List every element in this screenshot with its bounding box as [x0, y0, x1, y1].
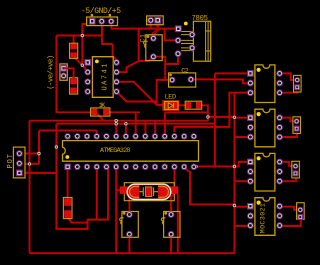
- wire X2 pad stub: [150, 20, 152, 28]
- connector J7 POT: [13, 147, 25, 178]
- svg-text:C2: C2: [181, 68, 189, 76]
- optocoupler U5 MOC3021: [247, 198, 283, 236]
- wire POT pin2: [19, 163, 39, 165]
- wire POT pin1: [19, 153, 39, 155]
- wire U2 pin1 feed: [215, 72, 247, 74]
- wire tap pad6: [115, 124, 117, 135]
- wire xtal right down: [177, 194, 179, 253]
- node K: [233, 204, 236, 207]
- optocoupler U2 MOC3021: [247, 65, 283, 103]
- wire 7805 pin2 feed: [165, 29, 178, 41]
- wire xtal left net: [115, 167, 117, 254]
- wire U5 pin3 feed: [234, 225, 247, 227]
- wire line D left leg: [56, 124, 108, 229]
- wire tap pad9: [144, 121, 146, 135]
- node M: [206, 115, 209, 118]
- label (-ve/+ve): [47, 55, 55, 90]
- svg-text:ATMEGA328: ATMEGA328: [100, 147, 131, 154]
- wire net -5V horizontal: [56, 35, 102, 37]
- wire tap pad8a: [135, 112, 137, 134]
- wire C2.2 to U2 pin2: [191, 79, 247, 83]
- wire seg a: [208, 116, 235, 118]
- wire U5 to J5: [280, 207, 301, 226]
- connector X2: [147, 16, 164, 25]
- wire C1 feed: [138, 29, 140, 61]
- node G: [115, 122, 118, 125]
- wire U2 to J2: [280, 73, 298, 92]
- connector J1 -5/GND/+5: [87, 14, 118, 26]
- resistor R2: [185, 101, 202, 109]
- wire X2 to C1 thick: [153, 20, 157, 38]
- optocoupler U3 MOC3021: [247, 109, 283, 147]
- op-amp U1 UA741: [84, 57, 119, 98]
- connector J2: [294, 75, 302, 92]
- node B: [81, 63, 84, 66]
- node J: [233, 165, 236, 168]
- node A: [81, 34, 84, 37]
- wire bottom bus: [30, 252, 235, 254]
- capacitor C4: [161, 211, 180, 237]
- wire pad4 tap: [96, 131, 98, 135]
- resistor R5: [70, 78, 78, 94]
- capacitor C3: [120, 211, 139, 237]
- wire LED to R2: [179, 104, 187, 106]
- wire C1.2 to C2.1: [153, 57, 165, 80]
- resistor R4: [63, 198, 72, 219]
- wire U4 to J4: [280, 162, 296, 181]
- wire U5 pin1 feed: [234, 206, 247, 208]
- wire C1 to U1 pin7: [117, 61, 139, 72]
- label POT: [7, 154, 15, 169]
- wire J6 to R5: [64, 68, 74, 79]
- wire C1 bottom to pad2: [139, 57, 154, 61]
- wire U4 pin3 feed: [234, 180, 247, 182]
- wire tap pad7: [125, 124, 127, 135]
- node D: [37, 152, 40, 155]
- resistor R1: [70, 43, 78, 58]
- wire U3 to J3: [280, 118, 298, 137]
- wire seg 112: [165, 111, 208, 113]
- wire U1 pin6 to LED diagonal: [117, 82, 157, 105]
- wire 1K right: [108, 111, 140, 113]
- svg-text:MOC3021: MOC3021: [260, 203, 267, 233]
- wire C4 bottom: [170, 234, 172, 253]
- capacitor C1: [139, 34, 162, 61]
- node F: [115, 119, 118, 122]
- wire R1 top: [73, 36, 75, 45]
- optocoupler U4 MOC3021: [247, 153, 283, 191]
- crystal X1: [120, 183, 179, 201]
- wire C2.1 to LED: [157, 80, 173, 105]
- wire xtal left stub: [116, 189, 122, 191]
- wire POT pin3: [19, 172, 56, 174]
- wire 1K diag: [98, 114, 104, 121]
- wire line E: [174, 93, 234, 132]
- wire pad4 down: [96, 167, 98, 220]
- connector J5: [297, 203, 305, 220]
- wire bus C: [39, 130, 97, 132]
- label -5/GND/+5: [81, 7, 121, 16]
- node I: [233, 116, 236, 119]
- wire bus C leg: [38, 131, 40, 164]
- node C: [55, 145, 58, 148]
- wire pad12 to xtal: [173, 167, 175, 187]
- connector J4: [292, 161, 300, 178]
- wire vertical 215: [214, 73, 216, 166]
- LED D1: [162, 93, 179, 110]
- wire tap pad10: [154, 121, 156, 135]
- wire C3 top: [127, 194, 130, 215]
- wire R2 to node: [200, 105, 208, 120]
- wire J1.1 to R1/U1: [82, 24, 91, 72]
- wire U2 pin3 feed: [234, 92, 247, 94]
- wire U1 pin5 diagonal: [117, 92, 157, 102]
- node L: [194, 165, 197, 168]
- wire to U1 pin8: [113, 44, 117, 62]
- regulator U6 7805: [175, 15, 211, 61]
- wire U3 pin1 feed: [234, 117, 247, 119]
- wire R4 bottom: [68, 218, 88, 223]
- connector J3: [293, 117, 301, 134]
- wire -5V to R3 1K: [56, 36, 92, 113]
- capacitor C2: [169, 68, 196, 88]
- wire main right vertical: [233, 93, 235, 254]
- svg-text:UA741: UA741: [102, 64, 110, 91]
- wire bus B long: [30, 120, 208, 122]
- connector J6 -ve/+ve: [60, 64, 67, 80]
- wire J1.2 down: [102, 22, 113, 44]
- wire C4 top: [171, 194, 173, 215]
- wire bus B left leg: [29, 121, 31, 254]
- resistor R3 1K: [91, 102, 110, 116]
- microcontroller U7 ATMEGA328: [63, 133, 199, 170]
- svg-text:(-ve/+ve): (-ve/+ve): [47, 55, 55, 90]
- wire C3 bottom: [128, 234, 130, 253]
- wire 7805 pin3 down: [165, 54, 178, 64]
- svg-text:-5/GND/+5: -5/GND/+5: [81, 7, 121, 16]
- node H: [124, 122, 127, 125]
- wire pad13 route: [184, 167, 234, 205]
- wire tap pad11: [164, 112, 166, 134]
- wire R1 bottom diagonal: [74, 57, 83, 66]
- wire J1.3 to X2/7805: [112, 22, 179, 29]
- wire U4 pin1 feed: [234, 162, 247, 167]
- wire line D: [56, 123, 215, 125]
- wire pin1 to R4: [67, 167, 69, 199]
- node E: [28, 162, 31, 165]
- wire U3 pin3 feed: [234, 136, 247, 138]
- wire pad14 route: [194, 166, 235, 168]
